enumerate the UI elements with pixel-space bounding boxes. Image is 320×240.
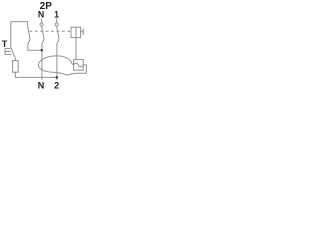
svg-text:N: N <box>38 9 44 19</box>
svg-text:N: N <box>38 80 45 90</box>
svg-text:T: T <box>2 39 8 49</box>
svg-text:1: 1 <box>54 9 59 19</box>
svg-text:2: 2 <box>54 80 59 90</box>
